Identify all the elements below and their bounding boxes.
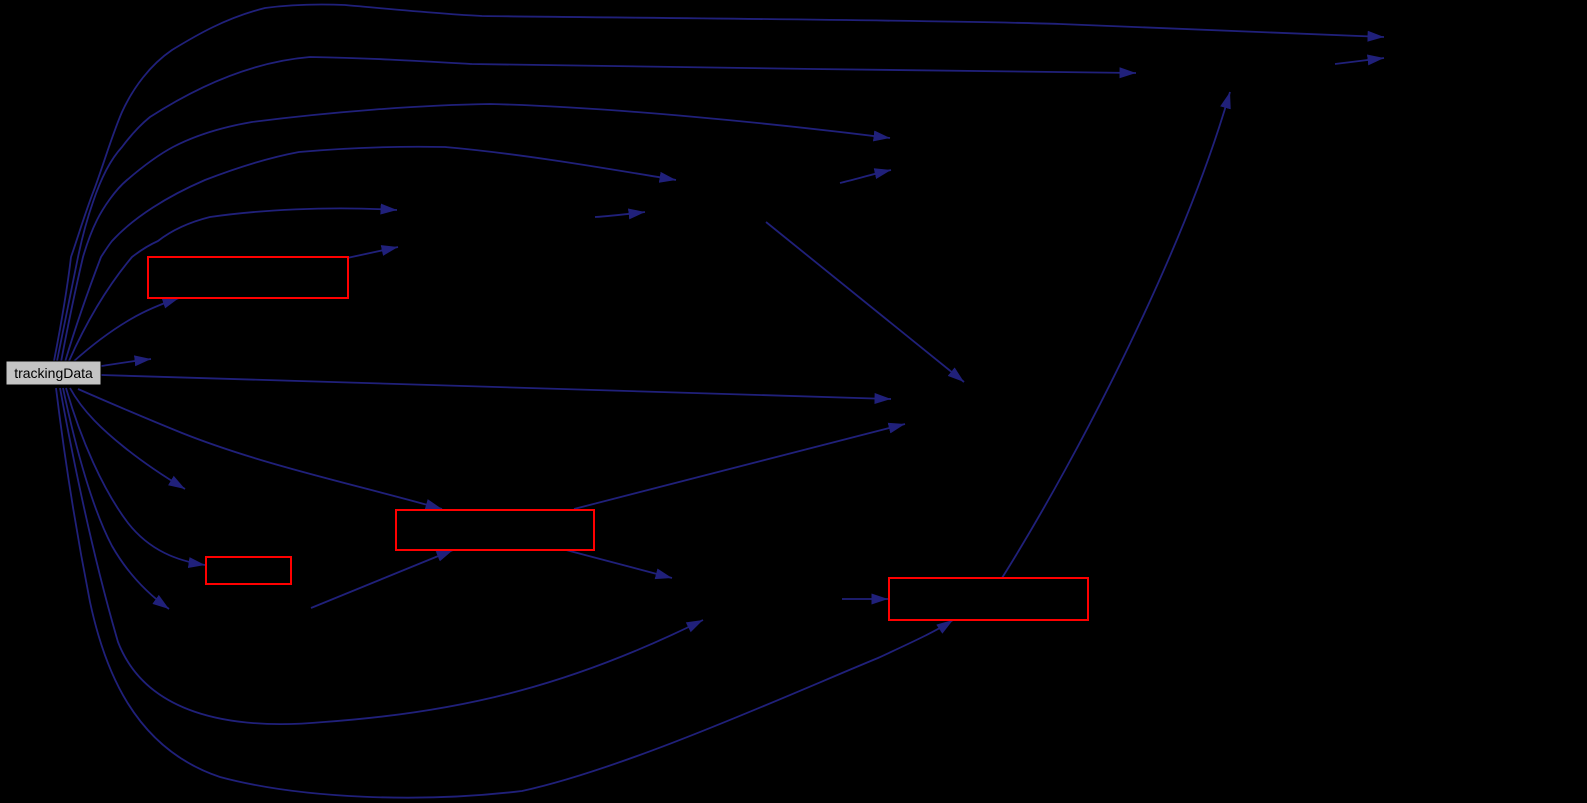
wire E6 red box R1 to node (arrow 398,247) [347,247,398,258]
wire E19 node to node (arrow 964,382) [766,222,964,382]
wire E22 red box R4 top to node (arrow 1230,92) [1002,92,1230,578]
wire E9 trackingData long straight to node (arrow 891,399) [101,375,891,399]
svg-text:trackingData: trackingData [14,365,93,381]
wire E4 trackingData to node (arrow 676,180) [65,147,676,362]
wire E7 trackingData to red box R1 bottom (arrow 179,298) [73,298,179,362]
wire curve-a trackingData swoop to arrow (703,620) [60,388,703,724]
wire E20 short stub (arrow 891,170) [840,170,891,183]
node R4 (red truncated box) [889,578,1088,620]
wire E8 trackingData short arrow right (tip 151,359) [101,359,151,366]
wire E16 node below to red box R2 bottom (arrow 453,550) [311,550,453,608]
node trackingData [6,361,101,385]
wire E5 trackingData to node (arrow 397,210) [69,208,397,361]
node R1 (red truncated box) [148,257,348,298]
wire E14 red box R2 to node (arrow 905,424) [574,424,905,509]
wire E18 short stub (arrow 645,212) [595,212,645,217]
wire E13 trackingData to red box R2 top-left (arrow 442,509) [78,389,442,509]
wire curve-b trackingData swoop to red box R4 bottom (arrow 953,620) [56,388,953,798]
wire E10 trackingData down fan (arrow 185,489) [70,388,185,489]
wire E11 trackingData to red box R3 (arrow 205,565) [66,388,205,565]
wire E12 trackingData down fan (arrow 169,609) [63,388,169,609]
wire E3 trackingData to node (arrow 890,138) [61,104,890,362]
wire E15 red box R2 to node (arrow 672,578) [566,550,672,578]
wire E2 trackingData to node (arrow 1136,73) [57,57,1136,361]
node R3 (red truncated box) [206,557,291,584]
wire E1 trackingData to far top-right node [54,4,1384,361]
node R2 (red truncated box) [396,510,594,550]
wire E21 short stub far right (arrow 1384,58) [1335,58,1384,64]
wire E17 node to red box R4 left (arrow 888,599) [842,598,888,600]
